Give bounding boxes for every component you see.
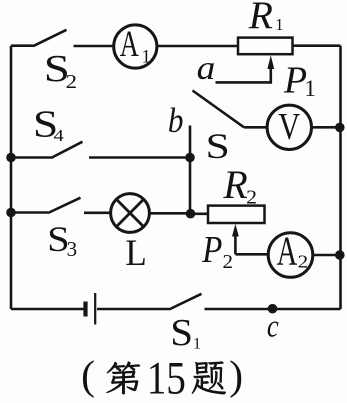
svg-text:1: 1 [275, 15, 283, 34]
lamp L cross [116, 199, 143, 226]
wire P2 wiper shaft [234, 234, 237, 254]
svg-text:15: 15 [147, 354, 186, 403]
wire A1 to R1 [157, 45, 238, 48]
wire node to R2 [191, 213, 208, 216]
wire top-left corner to S2 [11, 44, 33, 47]
lamp L circle [111, 194, 150, 233]
svg-text:P: P [201, 229, 222, 271]
svg-text:b: b [168, 101, 184, 140]
junction node left rail S3 row [6, 208, 16, 218]
wire bottom-left corner to battery [11, 308, 84, 311]
svg-text:R: R [222, 163, 247, 207]
wire lamp to node [149, 212, 191, 215]
caption character Ti (ti2) [192, 361, 226, 394]
wire S4 row from left rail [11, 156, 51, 159]
switch S1 blade [169, 294, 202, 310]
battery negative plate [83, 302, 87, 317]
wire battery to S1 [97, 308, 169, 311]
wire S1 to bottom-right corner [205, 308, 341, 311]
ammeter A2 circle [268, 233, 313, 278]
wiper P1 arrowhead [267, 55, 274, 69]
svg-text:1: 1 [142, 47, 151, 67]
svg-text:S: S [170, 313, 193, 354]
svg-text:S: S [206, 126, 230, 166]
junction node A2 right rail [335, 250, 345, 260]
resistor R1 box [238, 38, 293, 55]
ammeter A1 circle [114, 25, 157, 68]
wire V to right rail [312, 126, 341, 129]
switch S blade [193, 91, 245, 128]
wire P2 tap to A2 [235, 253, 268, 256]
voltmeter V circle [267, 105, 311, 149]
svg-text:1: 1 [193, 335, 201, 352]
svg-text:2: 2 [223, 251, 234, 273]
junction node left rail S4 row [6, 153, 16, 163]
switch S4 blade [51, 142, 83, 158]
wire left rail [10, 46, 13, 309]
svg-text:a: a [197, 50, 216, 87]
svg-text:L: L [125, 233, 146, 274]
svg-text:2: 2 [298, 252, 309, 272]
svg-text:): ) [229, 352, 243, 399]
wire S4 to node b line [89, 156, 190, 159]
junction node V right rail [335, 123, 345, 133]
svg-text:V: V [278, 106, 300, 148]
junction node b line to R2 [186, 209, 196, 219]
wire R1 to top-right corner [293, 44, 341, 47]
switch S3 blade [48, 198, 81, 213]
svg-text:1: 1 [304, 76, 316, 101]
svg-text:A: A [120, 24, 139, 65]
resistor R2 box [208, 206, 265, 223]
junction node S on b line [185, 153, 195, 163]
switch S2 blade [33, 30, 67, 46]
svg-text:2: 2 [246, 186, 257, 208]
wire S3 to lamp [84, 212, 111, 215]
svg-text:4: 4 [54, 126, 65, 145]
wire S3 row from left rail [11, 211, 48, 214]
wire A2 to right rail [313, 254, 341, 257]
wire a tap with P1 wiper corner [216, 66, 271, 82]
svg-text:R: R [248, 0, 273, 37]
svg-text:A: A [277, 227, 298, 273]
caption character Di (di4) [106, 361, 140, 394]
wire S2 to A1 [74, 45, 114, 48]
svg-text:c: c [267, 307, 279, 343]
wire node b vertical line [189, 126, 192, 214]
svg-text:2: 2 [66, 71, 77, 93]
junction node c [268, 304, 278, 314]
wire S to V [244, 126, 267, 129]
wiper P2 arrowhead [232, 224, 239, 237]
svg-text:3: 3 [67, 237, 78, 261]
svg-text:(: ( [81, 352, 95, 399]
wire right rail [339, 46, 342, 309]
battery positive plate [94, 293, 96, 325]
